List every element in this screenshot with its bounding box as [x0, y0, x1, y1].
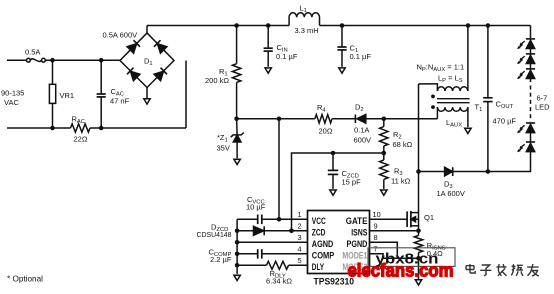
svg-text:DLY: DLY — [312, 262, 325, 272]
wire power ground rail y258 — [383, 257, 419, 259]
inductor L1 3.3mH — [289, 13, 319, 26]
svg-text:3: 3 — [298, 233, 302, 242]
wire AC line bottom left — [7, 127, 71, 129]
wire fuse to bridge left — [45, 59, 120, 61]
resistor RAC 22ohm — [71, 124, 91, 132]
wire ZCD row — [237, 230, 253, 232]
watermark chinese char 2 (zi) — [480, 265, 491, 276]
watermark chinese char 5 (you) — [527, 264, 539, 276]
svg-text:0.1 µF: 0.1 µF — [350, 52, 372, 61]
svg-text:8: 8 — [374, 233, 378, 242]
svg-text:2: 2 — [298, 222, 302, 231]
wire aux left lead to D2 line — [436, 107, 438, 119]
node switch node bottom junction — [416, 169, 421, 174]
wire bridge right vertex drop — [185, 61, 187, 129]
D1 diode top-right arm — [154, 40, 167, 53]
node CAC top junction — [99, 58, 104, 63]
svg-text:6-7: 6-7 — [537, 94, 548, 103]
svg-text:6.34 kΩ: 6.34 kΩ — [266, 276, 292, 285]
watermark chinese char 1 (dian) — [466, 264, 475, 273]
svg-text:10 µF: 10 µF — [246, 203, 266, 212]
node fuse/VR1 junction — [50, 58, 55, 63]
LED2 — [526, 54, 535, 64]
T1 aux phase dot — [431, 105, 435, 109]
svg-text:AGND: AGND — [312, 239, 334, 249]
LED1 — [526, 39, 535, 49]
wire VCC feed rail y119 — [237, 118, 315, 120]
svg-text:600V: 600V — [354, 136, 372, 145]
diode D2 (cathode left) — [355, 114, 365, 123]
svg-text:47 nF: 47 nF — [110, 97, 130, 106]
LED3 emission arrows — [517, 71, 525, 79]
wire bridge top vertex to rail — [146, 26, 148, 34]
ground below RISNS — [415, 258, 421, 285]
wire ISNS pin to Q1 source — [370, 230, 419, 232]
zener Z1 35V — [231, 119, 244, 165]
node CAC bottom junction — [99, 126, 104, 131]
svg-text:0.1 µF: 0.1 µF — [276, 52, 298, 61]
wire LED4-LED5 — [530, 133, 532, 142]
svg-text:200 kΩ: 200 kΩ — [205, 76, 229, 85]
svg-text:2.2 µF: 2.2 µF — [210, 255, 232, 264]
node COUT top junction — [486, 23, 491, 28]
capacitor CIN 0.1uF — [264, 26, 273, 74]
node R2/R3 divider junction — [382, 151, 387, 156]
transformer T1 aux winding LAUX — [437, 107, 467, 111]
wire aux right lead to ground arrow — [465, 107, 471, 133]
wire LED1-LED2 — [530, 49, 532, 54]
svg-text:9: 9 — [374, 222, 378, 231]
svg-text:1: 1 — [298, 210, 302, 219]
wire D2 to aux winding (crosses switch node) — [366, 118, 438, 120]
wire top rail left segment — [147, 25, 289, 27]
svg-text:* Optional: * Optional — [7, 274, 43, 283]
svg-text:0.1A: 0.1A — [354, 126, 369, 135]
svg-text:11 kΩ: 11 kΩ — [391, 177, 411, 186]
svg-text:GATE: GATE — [346, 216, 368, 226]
svg-text:0.5A 600V: 0.5A 600V — [103, 31, 138, 40]
diode DZCD CDSU4148 — [254, 226, 308, 235]
wire GATE pin to Q1 gate — [370, 218, 408, 220]
svg-text:ISNS: ISNS — [351, 228, 367, 238]
varistor VR1 — [49, 60, 55, 128]
LED5 emission arrows — [517, 144, 525, 152]
node VCC tap junction — [277, 117, 282, 122]
wire MODE1 pin to ground rail — [370, 254, 384, 258]
wire top rail right segment — [320, 25, 531, 27]
node DLY gnd-rail junction — [235, 263, 240, 268]
fuse F1 0.5A — [27, 58, 46, 62]
wire Q1 drain drop — [418, 172, 420, 213]
capacitor C1 0.1uF — [337, 26, 346, 74]
ground below bridge — [144, 88, 150, 105]
svg-text:Q1: Q1 — [424, 213, 434, 222]
LED3 — [526, 69, 535, 79]
svg-text:68 kΩ: 68 kΩ — [393, 140, 413, 149]
wire PGND pin to ground rail — [370, 242, 398, 258]
svg-text:COMP: COMP — [312, 251, 335, 261]
LED4 emission arrows — [517, 125, 525, 133]
node C1 junction — [340, 23, 345, 28]
LED5 — [526, 142, 535, 152]
resistor R4 20ohm — [315, 115, 332, 123]
svg-text:MODE1: MODE1 — [342, 251, 367, 261]
wire AC line top left — [7, 59, 27, 61]
svg-text:90-135: 90-135 — [1, 89, 24, 98]
node transformer primary top junction — [466, 23, 471, 28]
transformer T1 primary winding — [437, 87, 467, 91]
node ZCD gnd-rail junction — [235, 229, 240, 234]
wire R4 to D2 — [332, 118, 355, 120]
node R1 top junction — [234, 23, 239, 28]
wire primary right lead to rail — [467, 26, 469, 92]
svg-text:20Ω: 20Ω — [319, 127, 333, 136]
node COMP gnd-rail junction — [235, 252, 240, 257]
svg-text:1A 600V: 1A 600V — [437, 189, 465, 198]
wire LED2-LED3 — [530, 64, 532, 69]
svg-text:CDSU4148: CDSU4148 — [197, 230, 232, 239]
LED4 — [526, 123, 535, 133]
resistor R2 68k — [380, 119, 388, 153]
svg-text:VR1: VR1 — [60, 91, 75, 100]
capacitor CZCD 15pF — [328, 153, 338, 195]
wire switch node to D3 — [419, 171, 445, 173]
wire bottom rail to bridge return — [90, 127, 186, 129]
node Z1/R1/R4 junction — [234, 117, 239, 122]
node CZCD junction — [331, 151, 336, 156]
T1 primary phase dot — [431, 95, 435, 99]
svg-text:4: 4 — [298, 245, 302, 254]
wire AGND row — [237, 241, 307, 243]
svg-text:5: 5 — [298, 256, 302, 265]
D1 diode top-left arm — [127, 40, 140, 53]
node RISNS bottom junction — [416, 256, 421, 261]
transistor Q1 MOSFET — [407, 211, 418, 231]
wire ZCD sense line y153 — [292, 153, 384, 231]
node COUT bottom junction — [486, 169, 491, 174]
svg-text:22Ω: 22Ω — [74, 135, 88, 144]
resistor R3 11k — [380, 153, 388, 195]
node Q1 source junction — [416, 229, 421, 234]
svg-text:VAC: VAC — [4, 98, 19, 107]
LED2 emission arrows — [517, 56, 525, 64]
node VCC pin junction — [277, 217, 282, 222]
svg-text:470 µF: 470 µF — [493, 117, 517, 126]
D1 diode bottom-right arm — [154, 68, 167, 81]
wire switch node vertical x418.5 — [418, 84, 420, 172]
D1 diode bottom-left arm — [127, 68, 140, 81]
IC U1 TPS92310 body — [308, 211, 370, 274]
T1 core — [437, 99, 470, 103]
capacitor CAC — [97, 60, 106, 128]
node CIN junction — [266, 23, 271, 28]
watermark chinese char 3 (fa) — [496, 264, 506, 276]
wire LED string bottom drop — [453, 152, 531, 172]
svg-text:10: 10 — [373, 210, 381, 219]
node VR1 bottom junction — [50, 126, 55, 131]
ground rail vertical left of chip — [234, 219, 240, 280]
PLACEHOLDER-RIGHT2 — [7, 195, 419, 287]
watermark chinese char 4 (shao) — [511, 264, 523, 275]
wire VCC row with capacitor CVCC 10uF — [237, 215, 307, 225]
node ZCD pin junction — [289, 229, 294, 234]
svg-text:ZCD: ZCD — [312, 228, 326, 238]
svg-text:0.5A: 0.5A — [25, 48, 40, 57]
wire LED string top drop — [530, 26, 532, 39]
resistor RISNS 0.4ohm — [414, 231, 422, 258]
node R2 top junction — [382, 117, 387, 122]
wire DLY row with resistor RDLY 6.34k — [237, 261, 307, 269]
svg-text:LED: LED — [535, 103, 550, 112]
bridge rectifier D1 frame — [120, 33, 174, 88]
svg-text:3.3 mH: 3.3 mH — [295, 26, 319, 35]
svg-text:elecfans.com: elecfans.com — [348, 260, 454, 280]
svg-text:35V: 35V — [217, 144, 230, 153]
capacitor COUT 470uF — [483, 26, 492, 172]
wire LED string dashed continuation — [530, 79, 532, 122]
LED1 emission arrows — [517, 41, 525, 49]
wire VCC drop x279 — [278, 119, 280, 220]
wire primary left lead — [419, 84, 438, 91]
diode D3 1A 600V — [445, 167, 453, 176]
wire COMP row with capacitor CCOMP 2.2uF — [237, 249, 307, 258]
node AGND gnd-rail junction — [235, 240, 240, 245]
svg-text:PGND: PGND — [347, 239, 368, 249]
svg-text:15 pF: 15 pF — [342, 178, 362, 187]
watermark frame box — [368, 248, 455, 267]
resistor R1 200k — [232, 26, 240, 119]
svg-text:VCC: VCC — [312, 216, 326, 226]
